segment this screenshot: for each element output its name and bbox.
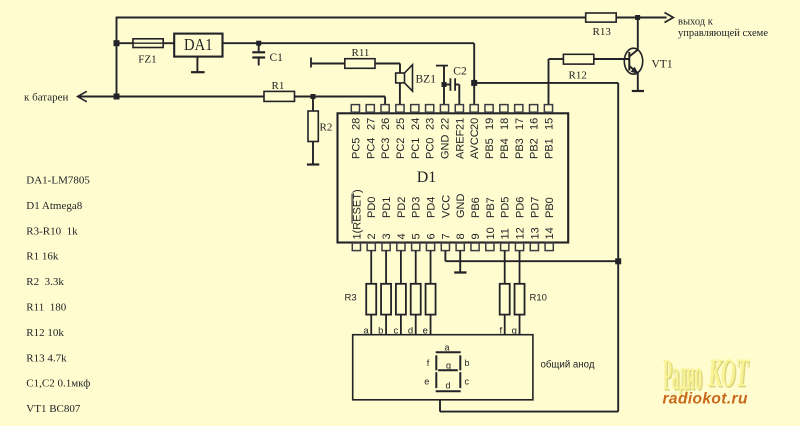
wire bottom rail (440, 411, 618, 413)
capacitor C1 bottom lead (258, 59, 260, 66)
svg-text:общий анод: общий анод (541, 359, 595, 370)
fuse FZ1 inner line (133, 42, 163, 44)
pin 21 square (455, 105, 463, 113)
wire pin 12 to resistor (519, 251, 521, 284)
wire R2 down (312, 142, 314, 165)
svg-text:PB6: PB6 (470, 197, 482, 218)
wire resistor to display (e) (430, 315, 432, 335)
svg-text:PB1: PB1 (543, 138, 555, 159)
svg-text:22: 22 (440, 118, 452, 130)
junction at C1 (256, 41, 261, 46)
svg-text:6: 6 (426, 233, 438, 239)
wire to battery (78, 96, 265, 98)
svg-text:FZ1: FZ1 (138, 54, 156, 66)
wire DA1 output to AVCC riser (223, 42, 475, 44)
wire pin 11 to resistor (504, 251, 506, 284)
pin 13 square (530, 243, 538, 251)
wire to FZ1 (117, 42, 134, 44)
svg-text:к батареи: к батареи (24, 92, 68, 104)
svg-text:PD7: PD7 (529, 197, 541, 218)
wire right-side vertical drop (617, 83, 619, 412)
wire R1 to pin 26 (295, 96, 386, 98)
junction at R2 (311, 94, 316, 99)
wire R12 to VT1 base (594, 58, 630, 60)
resistor segment a (366, 284, 376, 315)
svg-text:PD3: PD3 (411, 197, 423, 218)
svg-text:R1 16k: R1 16k (26, 251, 59, 263)
svg-text:VT1: VT1 (652, 59, 673, 71)
wire pin 4 to resistor (400, 251, 402, 284)
pin 8 square (456, 243, 464, 251)
VT1 base bar (628, 52, 630, 71)
svg-text:25: 25 (395, 118, 407, 130)
svg-text:VT1 BC807: VT1 BC807 (26, 403, 81, 415)
VT1 emitter terminal bar (632, 90, 644, 92)
wire down to pin 26 (384, 97, 386, 105)
R11 left terminal bar (310, 58, 312, 68)
ground bar pin 8 (454, 271, 466, 273)
junction on battery wire (114, 94, 120, 100)
wire resistor to display (b) (385, 315, 387, 335)
capacitor C2 right plate (454, 78, 456, 91)
wire resistor to display (a) (370, 315, 372, 335)
pin 27 square (366, 105, 374, 113)
svg-text:R3: R3 (345, 293, 357, 304)
svg-text:16: 16 (529, 118, 541, 130)
svg-text:27: 27 (365, 118, 377, 130)
resistor segment e (426, 284, 436, 315)
pin 3 square (382, 243, 390, 251)
pin 24 square (411, 105, 419, 113)
wire pin 8 GND down (459, 251, 461, 272)
wire pin 15 up to R12 (548, 59, 550, 105)
svg-text:PB7: PB7 (485, 197, 497, 218)
svg-text:PC1: PC1 (410, 138, 422, 159)
svg-text:1(RESET): 1(RESET) (351, 189, 363, 239)
svg-text:PB0: PB0 (544, 197, 556, 218)
svg-text:выход к: выход к (678, 16, 714, 27)
svg-text:c: c (465, 377, 470, 387)
svg-text:D1 Atmega8: D1 Atmega8 (26, 200, 82, 212)
pin 10 square (486, 243, 494, 251)
resistor segment g (515, 284, 525, 315)
pin 18 square (500, 105, 508, 113)
svg-text:5: 5 (411, 233, 423, 239)
resistor R11 (345, 59, 375, 69)
junction at AVCC (471, 80, 477, 86)
svg-text:15: 15 (543, 118, 555, 130)
wire pin 2 to resistor (370, 251, 372, 284)
R2 ground bar (307, 163, 319, 165)
svg-text:10: 10 (485, 227, 497, 239)
svg-text:PB3: PB3 (514, 138, 526, 159)
svg-text:КОТ: КОТ (707, 350, 748, 395)
svg-text:PD0: PD0 (366, 197, 378, 218)
VT1 emitter diagonal (629, 66, 638, 73)
junction VCC/right drop (615, 258, 621, 264)
buzzer BZ1 body (396, 73, 405, 83)
svg-text:PD5: PD5 (500, 197, 512, 218)
pin 28 square (351, 105, 359, 113)
segment b (459, 355, 461, 370)
svg-text:28: 28 (350, 118, 362, 130)
capacitor C2 left plate (449, 78, 451, 91)
wire VT1 emitter down (637, 73, 639, 91)
pin 22 square (440, 105, 448, 113)
VT1 collector diagonal (629, 50, 638, 57)
wire AVCC to right-side drop (474, 82, 618, 84)
svg-text:23: 23 (425, 118, 437, 130)
IC D1 body (338, 113, 569, 242)
svg-text:VCC: VCC (440, 195, 452, 218)
svg-text:2: 2 (366, 233, 378, 239)
wire terminal to R11 (311, 63, 345, 65)
segment c (459, 372, 461, 388)
svg-text:PD6: PD6 (515, 197, 527, 218)
capacitor C1 top lead (258, 43, 260, 51)
wire R11 to BZ1 (375, 63, 400, 65)
pin 1 square (352, 243, 360, 251)
svg-text:d: d (446, 381, 451, 391)
voltage regulator DA1 box (174, 34, 222, 57)
wire resistor to display (d) (415, 315, 417, 335)
resistor R12 (563, 54, 593, 64)
svg-text:20: 20 (469, 118, 481, 130)
pin 12 square (515, 243, 523, 251)
svg-text:8: 8 (455, 233, 467, 239)
svg-text:21: 21 (454, 118, 466, 130)
wire to R2 (312, 97, 314, 112)
svg-text:PC2: PC2 (395, 138, 407, 159)
svg-text:AREF: AREF (454, 129, 466, 159)
wire C2 to pin 21 (458, 85, 460, 105)
svg-text:PD2: PD2 (396, 197, 408, 218)
pin 9 square (471, 243, 479, 251)
resistor segment d (411, 284, 421, 315)
pin 2 square (367, 243, 375, 251)
svg-text:GND: GND (455, 194, 467, 219)
svg-text:PC0: PC0 (425, 138, 437, 159)
wire C2 terminal to pin 22 (443, 66, 445, 105)
wire to R12 (549, 58, 564, 60)
pin 7 square (441, 243, 449, 251)
svg-text:D1: D1 (417, 169, 437, 186)
svg-text:BZ1: BZ1 (416, 74, 437, 86)
resistor R13 (586, 13, 617, 22)
capacitor C2 left lead (444, 84, 450, 86)
svg-text:PB2: PB2 (529, 138, 541, 159)
svg-text:DA1-LM7805: DA1-LM7805 (26, 175, 90, 187)
wire pin 6 to resistor (430, 251, 432, 284)
svg-text:C1,C2 0.1мкф: C1,C2 0.1мкф (26, 378, 90, 390)
wire FZ1 to DA1 (163, 42, 174, 44)
wire resistor to display (c) (400, 315, 402, 335)
svg-text:управляющей схеме: управляющей схеме (678, 28, 768, 39)
segment e (435, 372, 437, 388)
7-segment display box (353, 335, 533, 400)
capacitor C1 bottom plate (252, 56, 265, 58)
svg-text:11: 11 (500, 228, 512, 239)
svg-text:26: 26 (380, 118, 392, 130)
capacitor C1 top plate (252, 51, 265, 53)
pin 15 square (544, 105, 552, 113)
wire down into BZ1 (399, 64, 401, 73)
pin 6 square (426, 243, 434, 251)
resistor segment b (381, 284, 391, 315)
pin 4 square (397, 243, 405, 251)
segment f (435, 355, 437, 370)
svg-text:9: 9 (470, 233, 482, 239)
svg-text:PB5: PB5 (484, 138, 496, 159)
junction C2 left (442, 82, 447, 87)
svg-text:17: 17 (514, 118, 526, 130)
svg-text:R12: R12 (569, 70, 587, 82)
wire VT1 collector up (637, 18, 639, 50)
pin 25 square (396, 105, 404, 113)
svg-text:R10: R10 (530, 293, 547, 304)
wire DA1 ground lead (196, 57, 198, 72)
wire resistor to display (g) (519, 315, 521, 335)
pin 14 square (545, 243, 553, 251)
wire top rail from left riser to R13 (117, 17, 586, 19)
wire display to bottom rail (439, 400, 441, 412)
svg-text:19: 19 (484, 118, 496, 130)
segment a (436, 351, 461, 353)
RESET overline (351, 194, 353, 224)
resistor R1 (264, 91, 295, 101)
wire resistor to display (f) (504, 315, 506, 335)
svg-text:PB4: PB4 (499, 138, 511, 159)
svg-text:PC5: PC5 (350, 138, 362, 159)
svg-text:a: a (445, 343, 450, 353)
svg-text:PD1: PD1 (381, 197, 393, 218)
svg-text:PD4: PD4 (426, 197, 438, 218)
junction at FZ1 branch (114, 40, 120, 46)
svg-text:3: 3 (381, 233, 393, 239)
svg-text:R1: R1 (272, 80, 285, 92)
svg-text:R12 10k: R12 10k (26, 327, 64, 339)
svg-text:C2: C2 (453, 66, 467, 78)
pin 5 square (412, 243, 420, 251)
pin 20 square (470, 105, 478, 113)
svg-text:13: 13 (529, 227, 541, 239)
junction at VT1 collector (635, 15, 640, 20)
fuse FZ1 (133, 39, 163, 48)
pin 17 square (515, 105, 523, 113)
svg-text:PC4: PC4 (365, 138, 377, 159)
svg-text:7: 7 (440, 233, 452, 239)
pin 23 square (426, 105, 434, 113)
wire BZ1 to pin 25 (399, 83, 401, 105)
wire pin 7 VCC down (444, 251, 446, 262)
segment g (438, 369, 458, 371)
svg-text:b: b (465, 358, 470, 368)
svg-text:GND: GND (440, 135, 452, 160)
svg-text:18: 18 (499, 118, 511, 130)
wire pin 5 to resistor (415, 251, 417, 284)
svg-text:R13 4.7k: R13 4.7k (26, 352, 67, 364)
pin 16 square (530, 105, 538, 113)
svg-text:e: e (424, 377, 429, 387)
pin 26 square (381, 105, 389, 113)
C2 top terminal bar (436, 65, 448, 67)
resistor segment c (396, 284, 406, 315)
wire riser down to AVCC pin 20 (473, 43, 475, 104)
svg-text:C1: C1 (270, 52, 284, 64)
resistor segment f (500, 284, 510, 315)
svg-text:AVCC: AVCC (469, 129, 481, 159)
svg-text:24: 24 (410, 118, 422, 130)
svg-text:R3-R10 1k: R3-R10 1k (26, 225, 78, 237)
svg-text:R2 3.3k: R2 3.3k (26, 276, 64, 288)
wire VCC to right drop (445, 260, 618, 262)
svg-text:g: g (446, 361, 451, 371)
svg-text:14: 14 (544, 227, 556, 239)
svg-text:radiokot.ru: radiokot.ru (663, 391, 748, 408)
svg-text:R11 180: R11 180 (26, 302, 66, 314)
svg-text:R11: R11 (352, 47, 370, 59)
svg-text:R13: R13 (593, 26, 612, 38)
svg-text:12: 12 (515, 227, 527, 239)
wire left riser (116, 17, 118, 97)
resistor R2 (308, 111, 318, 142)
pin 11 square (501, 243, 509, 251)
svg-text:DA1: DA1 (184, 35, 213, 54)
ground bar under DA1 (191, 71, 205, 73)
segment d (436, 390, 461, 392)
svg-text:R2: R2 (320, 122, 333, 134)
capacitor C2 right lead (455, 84, 459, 86)
wire pin 3 to resistor (385, 251, 387, 284)
svg-text:4: 4 (396, 233, 408, 239)
svg-text:PC3: PC3 (380, 138, 392, 159)
pin 19 square (485, 105, 493, 113)
wire R13 to output arrow (617, 17, 667, 19)
